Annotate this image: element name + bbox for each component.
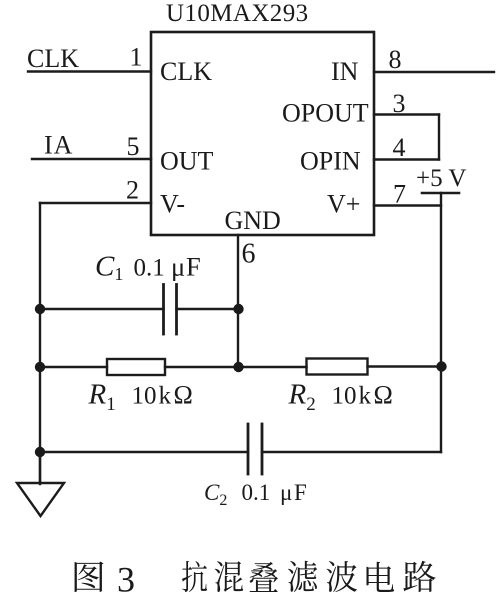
wire R1 to node	[165, 366, 307, 368]
wire pin 6 GND vertical	[237, 235, 239, 367]
wire left rail to R1	[40, 366, 107, 368]
svg-text:CLK: CLK	[160, 57, 212, 86]
wire pin 2 V- to left rail	[40, 202, 151, 204]
ground stub	[39, 452, 41, 483]
capacitor C1 plates	[164, 285, 177, 335]
svg-text:V+: V+	[327, 190, 360, 219]
wire bottom rail right of C2	[262, 451, 441, 453]
resistor R1 body	[107, 359, 165, 375]
svg-text:7: 7	[393, 180, 406, 209]
wire C1 left	[40, 308, 164, 310]
wire pin 4 OPIN	[374, 158, 439, 160]
svg-text:3: 3	[393, 89, 406, 118]
svg-text:3: 3	[117, 560, 135, 600]
junction node left rail / bottom rail	[35, 447, 45, 457]
svg-text:R210kΩ: R210kΩ	[288, 379, 393, 416]
svg-text:5: 5	[127, 132, 140, 161]
svg-text:2: 2	[126, 176, 139, 205]
junction node R1-R2 / pin6	[233, 362, 243, 372]
svg-text:6: 6	[242, 239, 256, 270]
svg-text:C10.1μF: C10.1μF	[95, 251, 201, 285]
wire bottom rail left of C2	[40, 451, 248, 453]
caption text: figure 3 anti-aliasing filter circuit (CJK drawn as vector paths)	[75, 561, 436, 592]
svg-text:IN: IN	[331, 57, 359, 86]
wire pin 8 IN output	[374, 71, 494, 73]
svg-text:CLK: CLK	[27, 44, 79, 73]
svg-text:GND: GND	[225, 206, 281, 235]
svg-text:V-: V-	[160, 190, 185, 219]
wire C1 right	[177, 308, 239, 310]
svg-text:R110kΩ: R110kΩ	[88, 379, 193, 416]
wire IA input to pin 5	[32, 158, 151, 160]
svg-text:OPIN: OPIN	[300, 147, 361, 176]
capacitor C2 plates	[248, 424, 262, 474]
ground symbol triangle	[17, 483, 64, 516]
wire left rail vertical	[39, 203, 41, 484]
wire right rail vertical	[440, 193, 442, 452]
junction node C1 / pin6	[233, 304, 243, 314]
power +5V bar	[422, 192, 459, 195]
svg-text:1: 1	[130, 43, 143, 72]
svg-text:4: 4	[393, 133, 406, 162]
svg-text:C20.1μF: C20.1μF	[204, 480, 307, 509]
svg-text:OPOUT: OPOUT	[282, 99, 369, 128]
svg-text:IA: IA	[44, 131, 73, 160]
svg-text:OUT: OUT	[160, 147, 214, 176]
junction node R2 / right rail	[436, 361, 446, 371]
resistor R2 body	[307, 359, 368, 375]
wire OPOUT-OPIN loop vertical	[438, 115, 440, 160]
svg-text:+5 V: +5 V	[416, 165, 466, 192]
wire CLK input to pin 1	[28, 70, 151, 72]
wire R2 to right rail	[368, 365, 442, 367]
svg-text:8: 8	[389, 45, 402, 74]
op-amp IC U10 MAX293 body	[151, 32, 374, 235]
junction node left rail / R1	[35, 362, 45, 372]
svg-text:U10MAX293: U10MAX293	[166, 0, 309, 27]
junction node left rail / C1	[35, 304, 45, 314]
wire pin 3 OPOUT	[374, 113, 439, 115]
wire pin 7 V+ to +5V rail	[374, 204, 441, 206]
